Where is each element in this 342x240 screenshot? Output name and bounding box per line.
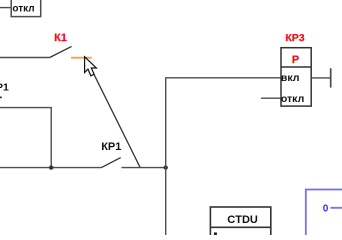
switch K1 fixed contact wire — [0, 57, 50, 59]
svg-text:КР1: КР1 — [101, 141, 121, 153]
svg-text:откл: откл — [12, 3, 34, 14]
svg-text:К1: К1 — [54, 32, 67, 44]
wire to stop button box — [0, 7, 11, 9]
svg-text:Р: Р — [292, 54, 299, 66]
terminal bar — [330, 68, 332, 87]
wire right pin of КР3 — [311, 77, 331, 79]
svg-text:CTDU: CTDU — [227, 214, 258, 226]
svg-text:КР3: КР3 — [286, 32, 305, 44]
relay P1 box (partial, left edge off-canvas) — [0, 108, 51, 168]
relay КР3 box — [281, 48, 311, 106]
vertical wire — [165, 78, 167, 235]
stop button box (откл), top cut off — [11, 0, 41, 17]
junction at vertical wire — [164, 165, 168, 169]
relay КР3 divider — [281, 66, 311, 68]
switch КР1 blade (open) — [101, 158, 120, 168]
svg-text:0: 0 — [323, 204, 329, 215]
partial letter Р in CTDU box — [214, 232, 217, 235]
indicator box (purple, partially visible) — [306, 190, 342, 240]
device CTDU box — [210, 207, 270, 240]
device CTDU divider — [210, 226, 270, 228]
svg-text:вкл: вкл — [281, 72, 300, 84]
wire bottom horizontal right section — [122, 167, 166, 169]
switch K1 blade (open) — [50, 46, 72, 57]
switch K1 right contact segment (orange highlight) — [71, 57, 92, 59]
svg-text:Р1: Р1 — [0, 82, 9, 94]
wire to КР3 вкл pin — [165, 77, 281, 79]
svg-text:откл: откл — [281, 93, 304, 105]
junction at P1 box corner — [49, 165, 53, 169]
mouse cursor — [85, 57, 97, 76]
wire stub to КР3 откл pin — [261, 97, 281, 99]
wire being drawn from K1 contact down to node — [86, 57, 141, 167]
small text fragment at left edge — [0, 97, 2, 99]
indicator pin line — [330, 207, 342, 209]
wire bottom horizontal left section — [0, 167, 101, 169]
